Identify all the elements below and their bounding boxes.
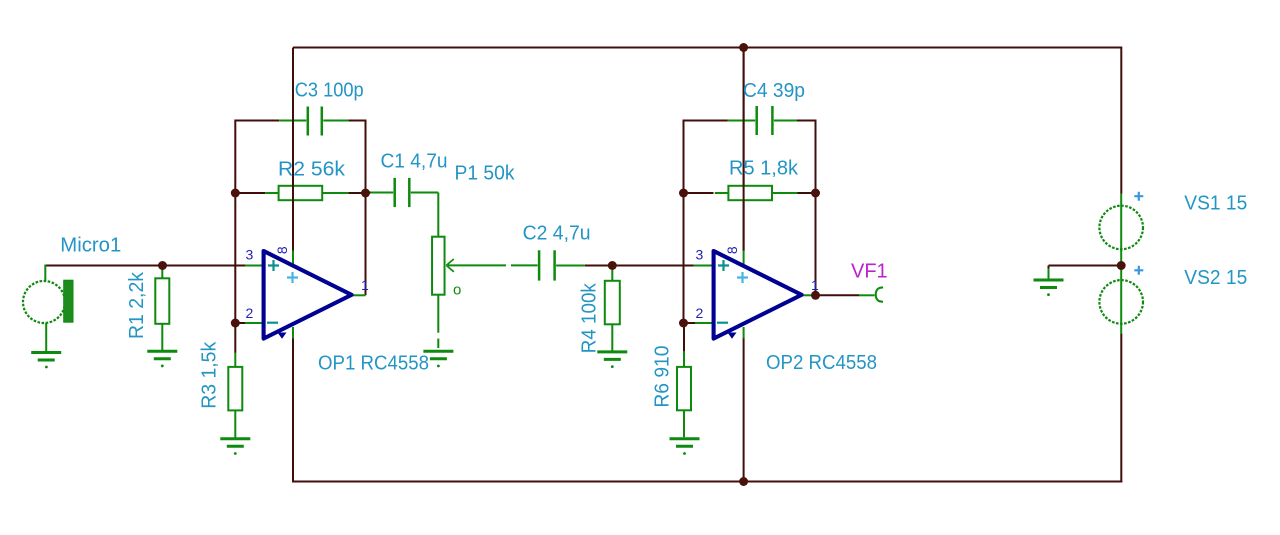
svg-text:R6 910: R6 910 <box>652 346 674 408</box>
svg-text:3: 3 <box>696 247 704 263</box>
svg-text:2: 2 <box>246 305 254 321</box>
svg-text:C4 39p: C4 39p <box>743 80 805 102</box>
svg-text:8: 8 <box>724 246 740 254</box>
svg-text:R5 1,8k: R5 1,8k <box>729 158 799 180</box>
svg-text:R3 1,5k: R3 1,5k <box>199 341 221 409</box>
svg-text:o: o <box>453 282 461 299</box>
svg-text:P1 50k: P1 50k <box>455 163 516 185</box>
svg-text:R1 2,2k: R1 2,2k <box>126 271 148 339</box>
svg-text:VF1: VF1 <box>851 261 888 283</box>
svg-text:Micro1: Micro1 <box>60 234 121 256</box>
svg-text:8: 8 <box>274 246 290 254</box>
svg-text:R4 100k: R4 100k <box>579 282 601 353</box>
svg-text:2: 2 <box>696 305 704 321</box>
svg-text:OP2 RC4558: OP2 RC4558 <box>766 352 877 374</box>
svg-text:VS1 15: VS1 15 <box>1184 193 1247 215</box>
svg-text:VS2 15: VS2 15 <box>1184 267 1247 289</box>
svg-text:3: 3 <box>246 247 254 263</box>
svg-text:C3 100p: C3 100p <box>295 79 364 101</box>
svg-text:1: 1 <box>811 277 819 293</box>
svg-text:OP1 RC4558: OP1 RC4558 <box>318 353 429 375</box>
svg-text:C1 4,7u: C1 4,7u <box>381 151 448 173</box>
svg-text:1: 1 <box>361 277 369 293</box>
svg-text:R2 56k: R2 56k <box>278 159 346 181</box>
svg-text:C2 4,7u: C2 4,7u <box>523 223 591 245</box>
